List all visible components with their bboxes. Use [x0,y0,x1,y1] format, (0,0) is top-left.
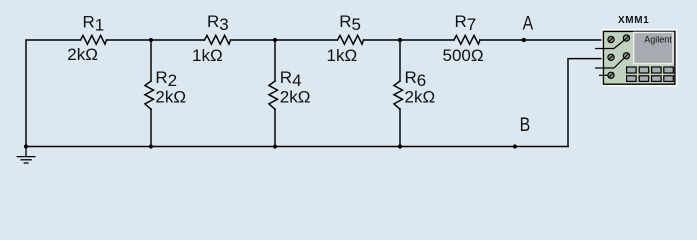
resistor R1 [81,35,107,44]
svg-text:R6: R6 [405,68,427,90]
wire top rail left segment [26,40,81,147]
buttons row 2 [627,76,674,82]
node ground [24,144,28,148]
resistor R6 [394,81,403,109]
resistor R7 [454,35,480,44]
svg-text:2kΩ: 2kΩ [405,88,436,107]
svg-text:R5: R5 [339,12,361,34]
svg-text:B: B [520,114,531,136]
wire R3 to R5 [231,39,338,41]
terminal jack 5 [608,72,614,78]
svg-text:R7: R7 [455,12,477,34]
wire R2 top lead [150,40,152,81]
svg-text:500Ω: 500Ω [443,46,484,65]
pin stub 4 [595,58,624,68]
wire riser B to XMM1 pin3 [568,59,608,147]
svg-text:2kΩ: 2kΩ [155,88,186,107]
svg-text:2kΩ: 2kΩ [67,45,98,64]
buttons row 1 [627,67,674,73]
wire R7 to XMM1 pin1 [480,39,608,41]
resistor R4 [269,81,278,109]
screen frame [634,32,673,63]
terminal jack 1 [608,36,614,42]
node R4 top [273,38,277,42]
resistor R2 [145,81,154,109]
pin stub 2 [595,40,624,48]
node R6 top [398,38,402,42]
wire R6 top lead [399,40,401,81]
ground [17,147,36,164]
multimeter XMM1 [595,29,677,87]
resistor R5 [338,35,364,44]
node R2 bottom [149,144,153,148]
svg-text:2kΩ: 2kΩ [280,88,311,107]
svg-text:1kΩ: 1kΩ [327,46,358,65]
terminal jack 4 [623,53,629,59]
terminal jack 3 [608,54,614,60]
svg-text:R1: R1 [83,13,105,35]
node R4 bottom [273,144,277,148]
node R6 bottom [398,144,402,148]
wire R2 bottom lead [150,109,152,147]
node B [513,144,517,148]
wire R6 bottom lead [399,109,401,147]
white halo [602,29,678,87]
terminal jack 2 [623,35,629,41]
wire R5 to R7 [364,39,454,41]
svg-text:A: A [523,13,534,34]
wire R4 top lead [274,40,276,81]
node junction dots [24,38,526,149]
svg-text:R4: R4 [280,68,302,90]
svg-text:R2: R2 [155,68,177,90]
svg-text:Agilent: Agilent [644,34,672,44]
wire R1 to R3 [107,39,205,41]
node A [522,38,526,42]
resistor R3 [205,35,231,44]
svg-text:1kΩ: 1kΩ [192,46,223,65]
instrument body [603,31,675,84]
node R2 top [149,38,153,42]
svg-text:XMM1: XMM1 [618,15,649,26]
wire bottom rail [26,146,568,148]
pin stub 5 [599,74,608,76]
svg-text:R3: R3 [207,12,229,34]
wire R4 bottom lead [274,109,276,147]
